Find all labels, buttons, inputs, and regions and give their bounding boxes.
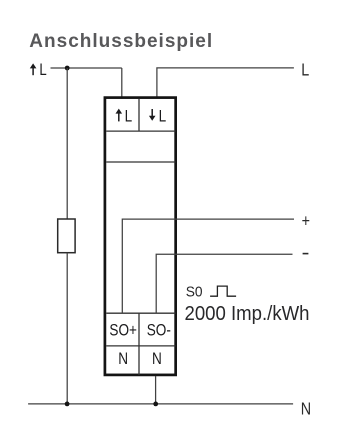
junction dot N left <box>65 402 70 407</box>
svg-text:S0: S0 <box>186 283 203 299</box>
junction dot N right <box>153 402 158 407</box>
meter divider top cells <box>138 99 140 131</box>
terminal label ↓L <box>149 107 167 126</box>
svg-text:2000 Imp./kWh: 2000 Imp./kWh <box>185 303 310 325</box>
wire S0+ output <box>122 219 294 313</box>
load resistor <box>58 219 75 253</box>
label - <box>303 253 309 255</box>
svg-text:+: + <box>302 212 310 231</box>
svg-text:SO+: SO+ <box>109 321 137 340</box>
svg-text:L: L <box>39 60 46 79</box>
meter row line 1 <box>106 130 175 132</box>
svg-text:L: L <box>125 107 133 126</box>
terminal label ↑L <box>116 107 133 126</box>
svg-text:Anschlussbeispiel: Anschlussbeispiel <box>29 31 213 52</box>
wire N drop from meter <box>155 376 157 404</box>
pulse symbol <box>210 286 236 296</box>
svg-text:SO-: SO- <box>147 321 171 340</box>
svg-text:N: N <box>152 349 162 368</box>
wire L-in drop to meter <box>121 68 123 98</box>
wire left branch lower segment <box>66 253 68 404</box>
junction dot top <box>65 66 70 71</box>
wire S0- output <box>156 254 292 313</box>
meter row line 2 <box>106 161 175 163</box>
svg-text:N: N <box>301 400 311 419</box>
svg-text:L: L <box>159 107 167 126</box>
wire L-in horizontal <box>51 67 122 69</box>
meter row line 4 (between SO and N rows) <box>106 345 175 347</box>
wire N bus <box>28 403 293 405</box>
svg-text:L: L <box>301 61 309 80</box>
wire left branch upper segment <box>66 68 68 219</box>
meter outline <box>105 98 176 375</box>
meter divider bottom cells <box>138 313 140 375</box>
meter row line 3 (top of SO row) <box>106 312 175 314</box>
svg-text:N: N <box>118 349 128 368</box>
node L-in label ↑L <box>30 60 47 79</box>
wire L-out to meter <box>157 68 294 98</box>
